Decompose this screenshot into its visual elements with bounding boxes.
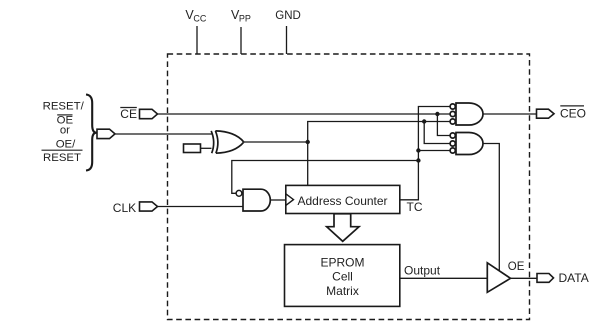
wire top AND output to CEO pin (483, 113, 537, 115)
clock NAND gate (236, 189, 270, 211)
power pin GND label (275, 10, 301, 22)
junction dot reset branch (422, 119, 426, 123)
wire EPROM output to buffer (400, 277, 488, 279)
wire CLK to clock NAND gate (158, 206, 244, 208)
svg-text:Address Counter: Address Counter (298, 194, 388, 208)
wire TC output up to gates (400, 107, 450, 200)
address counter block (286, 185, 400, 213)
wire XOR output to junction (244, 141, 308, 143)
svg-text:CC: CC (193, 14, 206, 24)
input pin CLK (140, 202, 158, 211)
xor gate polarity select (211, 131, 244, 153)
and gate OE bottom (450, 133, 483, 155)
wire VCC stub (196, 26, 198, 54)
wire reset branch to bottom gate input2 (424, 122, 450, 144)
block arrow counter to EPROM (327, 214, 359, 242)
svg-text:OE: OE (508, 261, 525, 273)
junction dot TC to input3 (416, 148, 420, 152)
wire VPP stub (240, 27, 242, 54)
polarity option box (184, 144, 201, 153)
node label CLK (113, 201, 136, 215)
svg-text:EPROM: EPROM (320, 255, 364, 269)
wire reset net to gates and counter (308, 122, 450, 186)
svg-text:Output: Output (404, 264, 441, 278)
node label CEO (560, 106, 586, 121)
wire CE branch to bottom gate input1 (437, 114, 450, 136)
svg-text:Cell: Cell (332, 270, 353, 284)
brace grouping reset label (86, 95, 97, 171)
EPROM cell matrix block (285, 245, 400, 307)
node label DATA (559, 271, 589, 285)
node label TC (407, 200, 423, 214)
and gate CEO top (450, 103, 483, 125)
svg-text:GND: GND (275, 10, 301, 22)
wire option box to XOR input (201, 147, 212, 149)
power pin VCC label (185, 8, 206, 24)
svg-text:RESET/: RESET/ (43, 101, 85, 113)
output pin CEO (537, 109, 555, 118)
wire GND stub (286, 26, 288, 54)
wire NAND feedback from TC net (232, 161, 419, 194)
svg-text:CEO: CEO (560, 107, 586, 121)
svg-text:OE/: OE/ (56, 139, 76, 151)
junction dot TC to feedback (416, 158, 420, 162)
svg-text:PP: PP (239, 14, 251, 24)
wire to bottom gate input3 (418, 150, 450, 152)
svg-text:CE: CE (120, 107, 137, 121)
wire buffer to DATA pin (511, 277, 538, 279)
input pin RESET/OE (97, 129, 115, 138)
node label Output (404, 264, 441, 278)
wire RESET to XOR input (115, 133, 212, 135)
junction dot XOR output (306, 140, 310, 144)
node label CE (120, 107, 137, 121)
power pin VPP label (231, 8, 251, 24)
node label OE (508, 261, 525, 273)
input pin CE (140, 109, 158, 118)
svg-text:or: or (60, 125, 70, 137)
svg-text:DATA: DATA (559, 271, 589, 285)
output pin DATA (537, 274, 554, 283)
node label RESET/OE or OE/RESET (42, 101, 85, 165)
svg-text:CLK: CLK (113, 201, 136, 215)
svg-text:Matrix: Matrix (326, 284, 359, 298)
wire NAND output to counter clock (270, 199, 285, 201)
svg-text:RESET: RESET (43, 152, 81, 164)
svg-text:TC: TC (407, 200, 423, 214)
wire CE to top AND gate (158, 113, 451, 115)
junction dot CE branch (435, 112, 439, 116)
wire bottom AND output to output buffer enable (483, 144, 499, 271)
output buffer triangle (487, 263, 510, 293)
device boundary dashed box (168, 54, 530, 320)
